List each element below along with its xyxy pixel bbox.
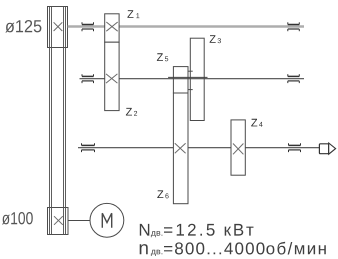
pulley D125 (driven pulley on shaft I) bbox=[48, 7, 68, 48]
label D100 bbox=[2, 212, 33, 225]
gear z4 (on shaft III) bbox=[231, 120, 245, 175]
motor shaft bbox=[68, 220, 90, 222]
gear z4 fixing cross bbox=[233, 144, 243, 155]
shaft I bbox=[68, 25, 304, 27]
bearing on shaft III right bbox=[289, 143, 301, 152]
pulley D100 (driver pulley on motor shaft) bbox=[48, 208, 69, 235]
motor letter M bbox=[102, 213, 111, 228]
pulley D100 fixing cross bbox=[54, 216, 63, 225]
pulley D125 fixing cross bbox=[54, 22, 63, 31]
belt (left strand, double line) bbox=[50, 7, 52, 235]
shaft II bbox=[80, 78, 305, 80]
label z3 bbox=[210, 35, 221, 43]
motor circle M bbox=[90, 203, 124, 237]
label z2 bbox=[126, 108, 137, 116]
label D125 bbox=[5, 20, 41, 33]
mesh tick upper (z5/z3) bbox=[188, 70, 193, 72]
label z6 bbox=[157, 190, 168, 198]
gear z6 fixing cross bbox=[175, 143, 186, 153]
text line: motor speed n bbox=[140, 242, 326, 256]
gear z3 (on shaft II) bbox=[190, 38, 204, 120]
bearing on shaft I right bbox=[288, 22, 300, 31]
gear z5 (sliding block on shaft II) bbox=[173, 67, 188, 93]
output arrow block bbox=[319, 144, 328, 154]
label z5 bbox=[157, 53, 168, 61]
bearing on shaft I left bbox=[82, 22, 94, 31]
text line: motor power N bbox=[140, 224, 254, 238]
gear z1 fixing cross bbox=[106, 22, 117, 31]
label z4 bbox=[251, 119, 262, 127]
belt (right strand, double line) bbox=[64, 7, 66, 235]
gear z1 (on shaft I) bbox=[105, 14, 119, 42]
bearing on shaft II right bbox=[288, 74, 300, 83]
gear z2 fixing cross bbox=[106, 74, 117, 83]
gear z6 (sliding block on shaft III) bbox=[173, 93, 188, 204]
output arrow head bbox=[329, 143, 336, 154]
shaft III (output) bbox=[78, 147, 320, 149]
bearing on shaft II left bbox=[82, 74, 94, 83]
spline line of shaft II bbox=[168, 76, 207, 78]
label z1 bbox=[127, 10, 139, 18]
gear z2 (on shaft II) bbox=[105, 42, 119, 110]
bearing on shaft III left bbox=[82, 143, 95, 152]
mesh tick lower (z5/z3) bbox=[188, 89, 193, 91]
